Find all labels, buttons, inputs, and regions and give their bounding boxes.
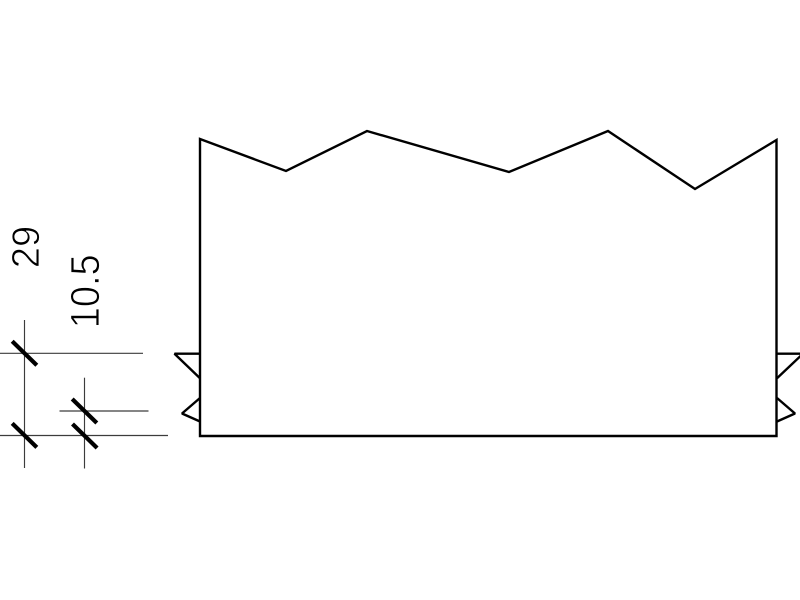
- tick mark top of 10.5: [72, 399, 97, 423]
- left upper clip symbol: [175, 354, 201, 379]
- svg-text:10.5: 10.5: [62, 254, 108, 328]
- left lower clip symbol: [182, 398, 200, 422]
- tick mark top of 29: [12, 341, 37, 365]
- dimension line 29 (vertical): [24, 320, 26, 468]
- tick mark bottom of 10.5: [73, 424, 98, 448]
- extension line bottom: [0, 435, 168, 437]
- extension line top flange: [0, 352, 143, 354]
- right lower clip symbol: [777, 398, 795, 422]
- extension line clip apex: [60, 410, 149, 412]
- dimension line 10.5 (vertical): [84, 378, 86, 469]
- svg-text:29: 29: [5, 226, 48, 269]
- panel profile outline: [200, 131, 777, 436]
- right upper clip symbol: [777, 354, 800, 379]
- tick mark bottom of 29: [12, 423, 37, 447]
